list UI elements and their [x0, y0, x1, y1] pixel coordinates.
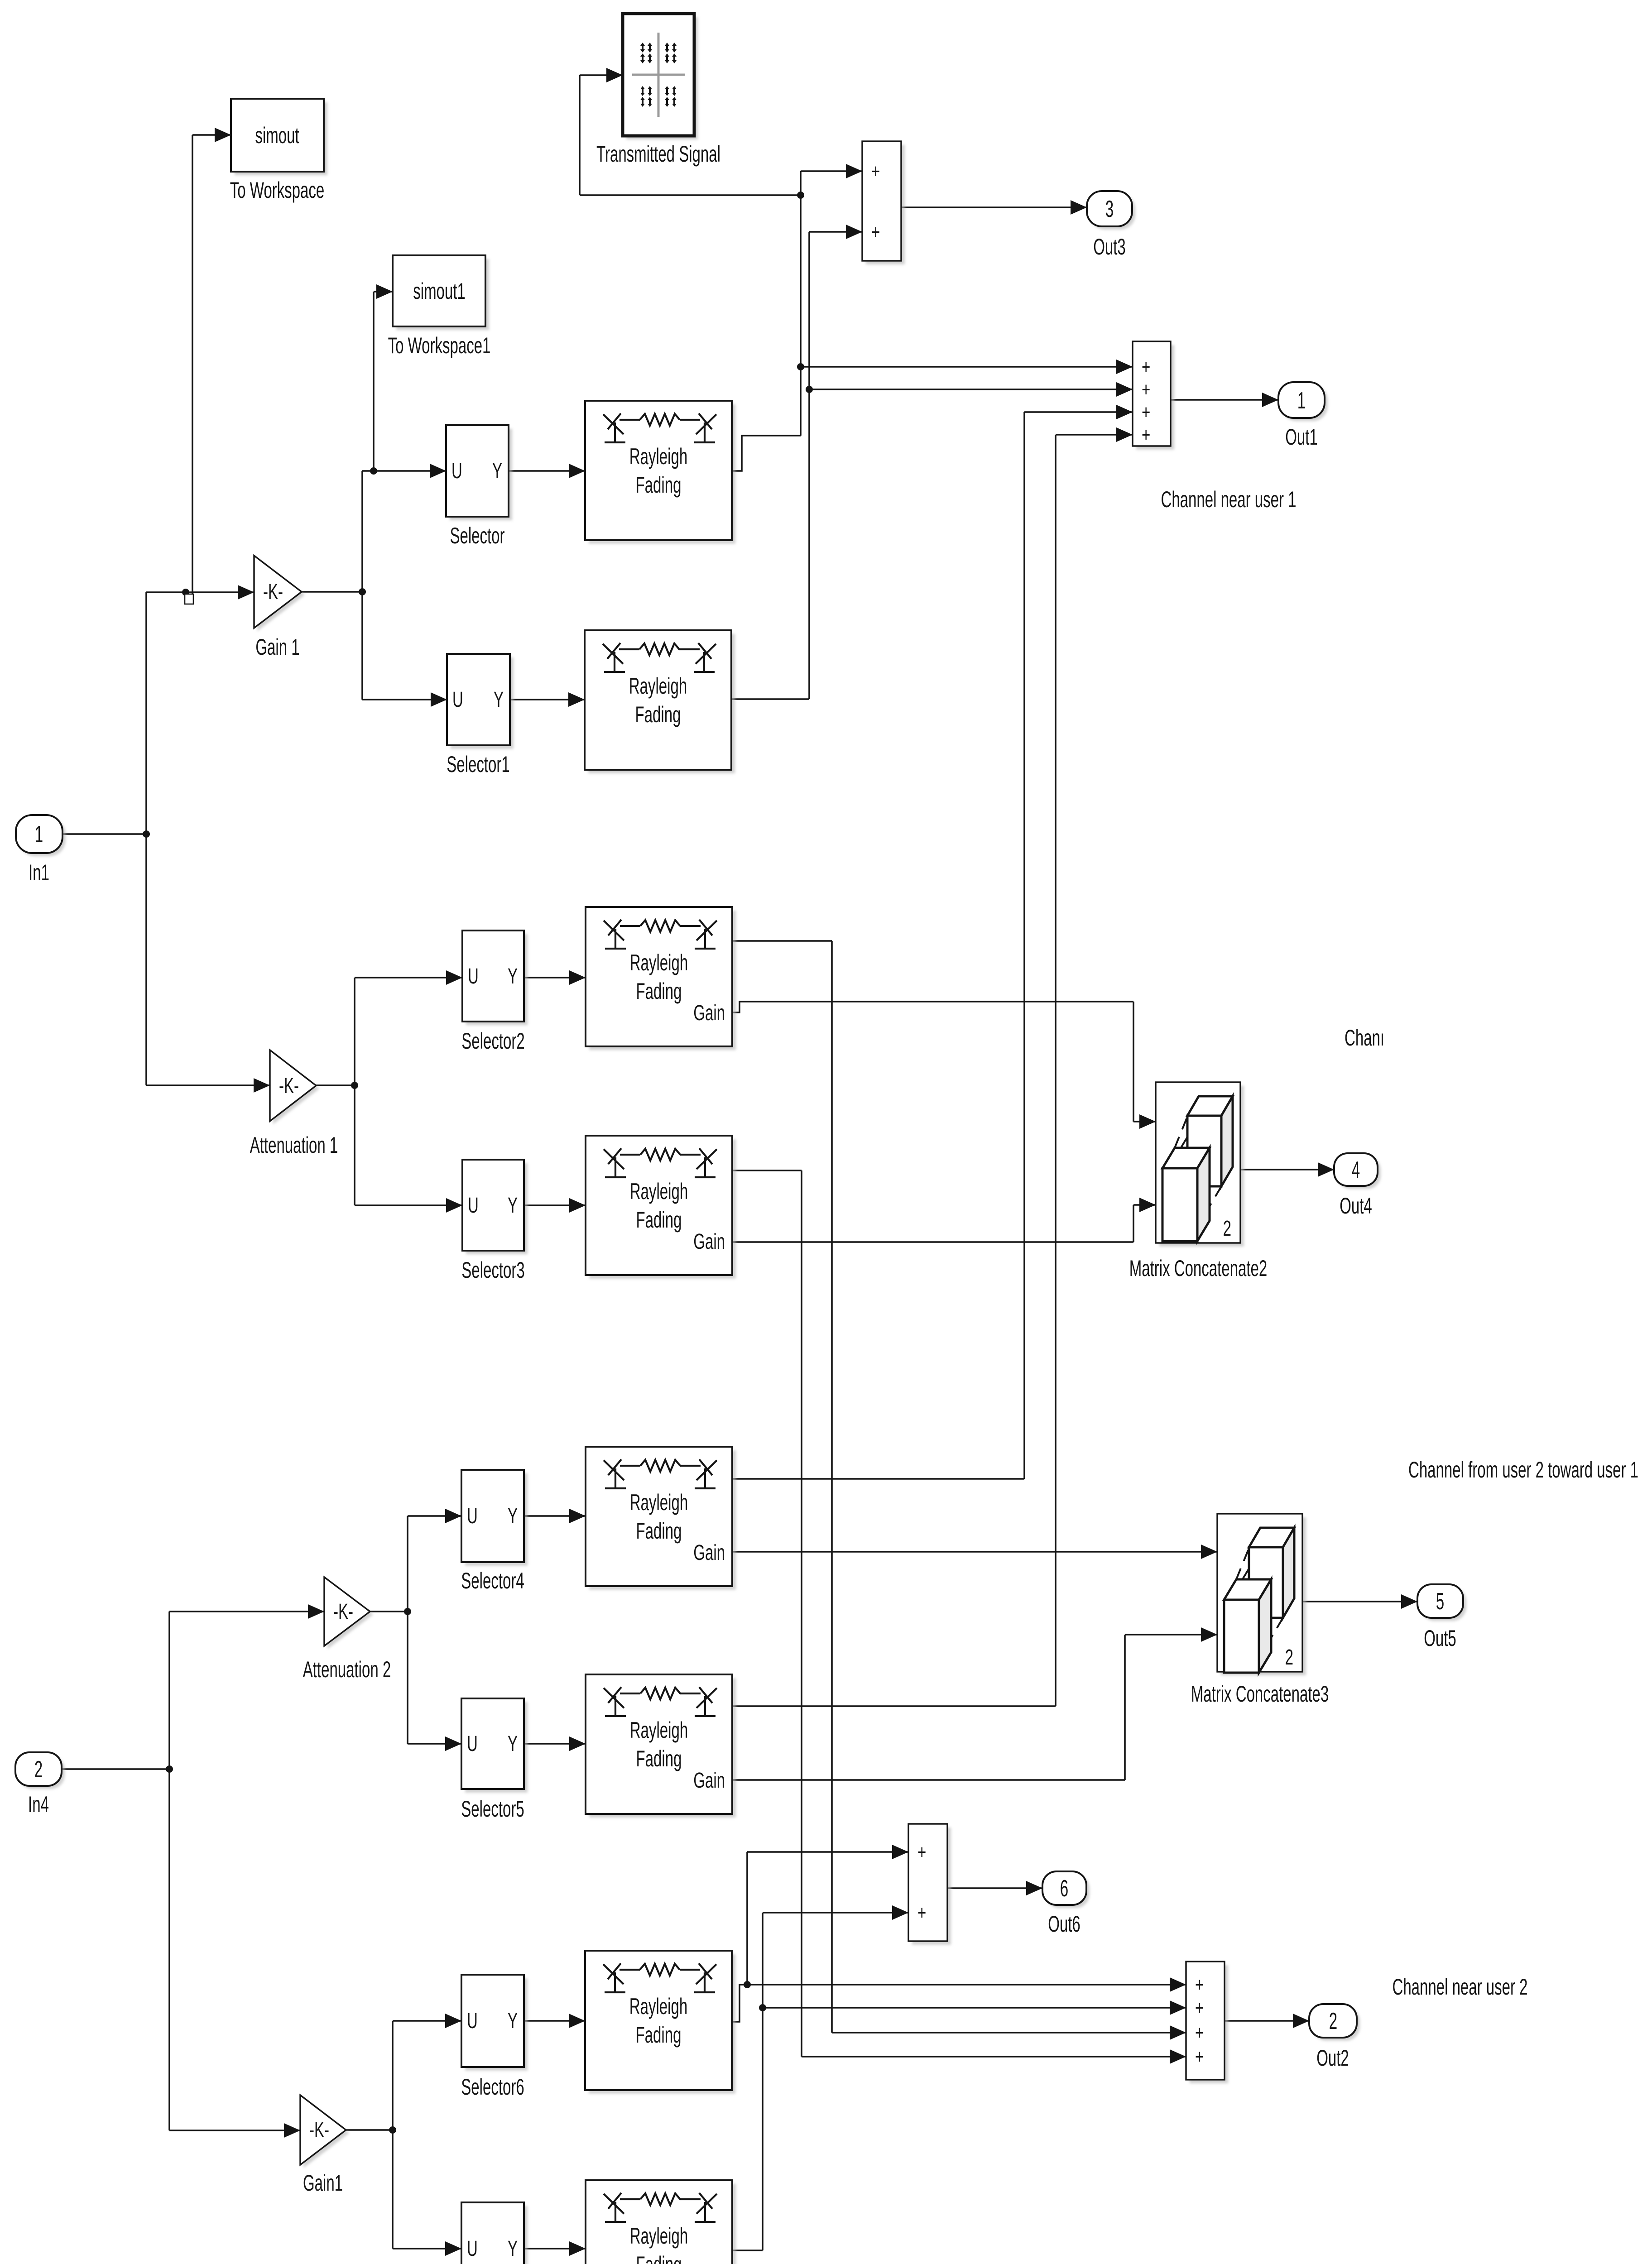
- svg-text:Gain 1: Gain 1: [255, 634, 299, 660]
- svg-text:Fading: Fading: [636, 2252, 682, 2264]
- svg-text:U: U: [468, 964, 479, 988]
- svg-text:U: U: [468, 1194, 479, 1218]
- svg-text:Y: Y: [508, 1732, 518, 1756]
- svg-text:Channel near user 2: Channel near user 2: [1393, 1974, 1528, 2000]
- svg-text:Y: Y: [494, 688, 504, 712]
- svg-text:Out3: Out3: [1093, 234, 1126, 259]
- svg-text:-K-: -K-: [309, 2118, 329, 2142]
- svg-text:+: +: [1142, 379, 1150, 401]
- svg-text:Y: Y: [508, 2237, 518, 2261]
- svg-text:+: +: [1142, 424, 1150, 446]
- svg-text:+: +: [917, 1902, 926, 1924]
- svg-text:Attenuation 1: Attenuation 1: [250, 1132, 338, 1158]
- svg-text:-K-: -K-: [279, 1074, 299, 1098]
- svg-text:Rayleigh: Rayleigh: [630, 950, 688, 975]
- svg-text:2: 2: [1285, 1645, 1293, 1669]
- svg-text:+: +: [1195, 2046, 1204, 2068]
- svg-text:Matrix Concatenate2: Matrix Concatenate2: [1129, 1256, 1268, 1281]
- svg-text:Chanı: Chanı: [1345, 1025, 1384, 1050]
- svg-text:+: +: [1142, 356, 1150, 378]
- svg-text:Channel from user 2 toward use: Channel from user 2 toward user 1: [1408, 1457, 1638, 1482]
- svg-text:+: +: [1195, 1997, 1204, 2019]
- svg-text:simout1: simout1: [413, 278, 466, 304]
- svg-text:Rayleigh: Rayleigh: [630, 1179, 688, 1204]
- svg-text:Transmitted Signal: Transmitted Signal: [596, 141, 720, 167]
- svg-text:+: +: [1195, 2022, 1204, 2044]
- svg-text:Rayleigh: Rayleigh: [629, 444, 687, 469]
- svg-text:Y: Y: [508, 2009, 518, 2033]
- svg-text:+: +: [1195, 1974, 1204, 1996]
- svg-text:Rayleigh: Rayleigh: [630, 1490, 688, 1515]
- svg-text:Out4: Out4: [1340, 1193, 1372, 1218]
- svg-text:3: 3: [1105, 196, 1114, 222]
- svg-text:To Workspace: To Workspace: [230, 177, 325, 203]
- svg-text:Y: Y: [492, 459, 502, 483]
- svg-text:Selector4: Selector4: [461, 1568, 524, 1593]
- svg-text:-K-: -K-: [333, 1600, 353, 1624]
- svg-text:Y: Y: [508, 1194, 518, 1218]
- svg-text:U: U: [451, 459, 462, 483]
- svg-text:Rayleigh: Rayleigh: [630, 2223, 688, 2249]
- svg-text:2: 2: [34, 1756, 43, 1783]
- svg-text:Fading: Fading: [636, 1207, 682, 1233]
- svg-text:-K-: -K-: [263, 580, 283, 604]
- svg-text:Attenuation 2: Attenuation 2: [303, 1657, 391, 1682]
- svg-text:Gain: Gain: [693, 1769, 725, 1793]
- svg-text:Selector2: Selector2: [461, 1028, 524, 1054]
- svg-text:Out6: Out6: [1048, 1911, 1081, 1937]
- svg-text:Fading: Fading: [635, 702, 681, 727]
- svg-text:Out2: Out2: [1316, 2045, 1349, 2071]
- svg-text:Selector3: Selector3: [461, 1257, 524, 1283]
- svg-text:Gain: Gain: [693, 1230, 725, 1254]
- svg-text:U: U: [467, 2237, 478, 2261]
- svg-text:U: U: [467, 2009, 478, 2033]
- svg-text:Fading: Fading: [636, 472, 682, 498]
- svg-text:+: +: [917, 1841, 926, 1863]
- svg-text:Gain: Gain: [693, 1541, 725, 1565]
- svg-text:To Workspace1: To Workspace1: [388, 333, 491, 358]
- svg-text:Rayleigh: Rayleigh: [629, 673, 687, 699]
- svg-text:Fading: Fading: [636, 2022, 682, 2048]
- svg-text:2: 2: [1329, 2008, 1337, 2034]
- svg-text:Y: Y: [508, 1504, 518, 1528]
- svg-text:Selector1: Selector1: [447, 752, 509, 777]
- svg-text:U: U: [452, 688, 463, 712]
- svg-text:5: 5: [1436, 1588, 1444, 1615]
- svg-text:+: +: [871, 221, 880, 243]
- svg-text:U: U: [467, 1504, 478, 1528]
- svg-text:Fading: Fading: [636, 1518, 682, 1544]
- svg-text:Rayleigh: Rayleigh: [630, 1717, 688, 1743]
- svg-text:Selector6: Selector6: [461, 2074, 524, 2100]
- svg-text:Out1: Out1: [1285, 424, 1318, 450]
- svg-text:+: +: [1142, 401, 1150, 423]
- svg-text:Gain: Gain: [693, 1001, 725, 1025]
- svg-text:2: 2: [1223, 1217, 1231, 1241]
- svg-text:1: 1: [35, 821, 43, 848]
- svg-text:Fading: Fading: [636, 1746, 682, 1771]
- svg-text:In1: In1: [29, 860, 49, 885]
- svg-text:Selector5: Selector5: [461, 1796, 524, 1822]
- svg-text:Fading: Fading: [636, 979, 682, 1004]
- svg-text:6: 6: [1060, 1875, 1068, 1902]
- svg-text:simout: simout: [255, 123, 299, 148]
- svg-text:Selector: Selector: [450, 523, 504, 548]
- svg-text:Matrix Concatenate3: Matrix Concatenate3: [1191, 1681, 1329, 1707]
- svg-text:Gain1: Gain1: [303, 2170, 343, 2196]
- svg-text:U: U: [467, 1732, 478, 1756]
- svg-text:1: 1: [1297, 388, 1306, 414]
- svg-text:4: 4: [1352, 1157, 1360, 1183]
- svg-text:Rayleigh: Rayleigh: [629, 1994, 687, 2019]
- svg-text:In4: In4: [28, 1792, 49, 1817]
- svg-text:+: +: [871, 160, 880, 182]
- svg-text:Out5: Out5: [1424, 1626, 1456, 1651]
- svg-text:Channel near user 1: Channel near user 1: [1161, 487, 1297, 512]
- svg-text:Y: Y: [508, 964, 518, 988]
